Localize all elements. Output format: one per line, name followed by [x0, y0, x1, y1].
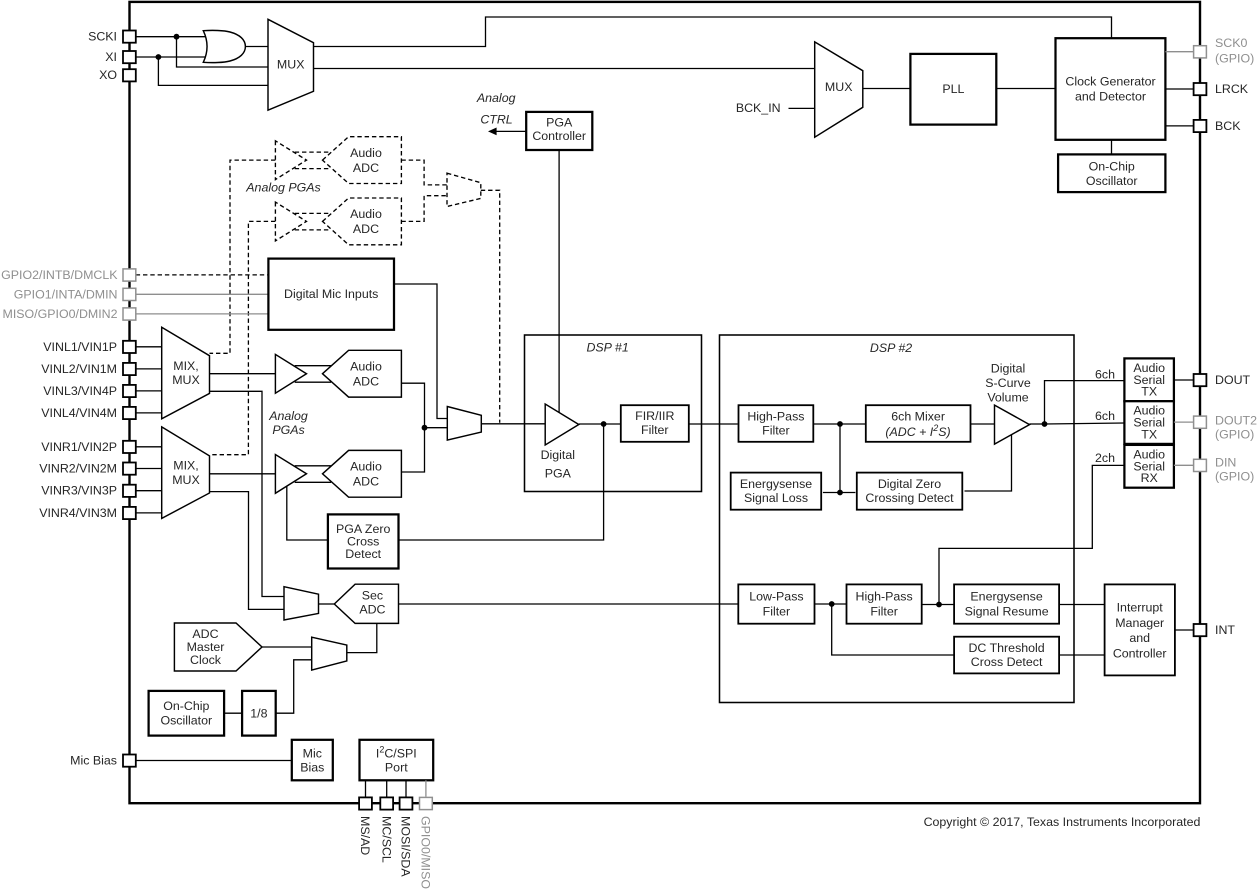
svg-text:CTRL: CTRL: [480, 112, 512, 126]
svg-text:VINL2/VIN1M: VINL2/VIN1M: [41, 362, 117, 376]
svg-text:6ch: 6ch: [1095, 409, 1115, 423]
svg-text:ADC: ADC: [192, 627, 218, 641]
svg-text:ADC: ADC: [353, 161, 379, 175]
svg-text:Signal Resume: Signal Resume: [965, 605, 1049, 619]
svg-text:Clock Generator: Clock Generator: [1065, 75, 1155, 89]
svg-text:Digital Zero: Digital Zero: [878, 477, 941, 491]
svg-text:VINL3/VIN4P: VINL3/VIN4P: [43, 384, 117, 398]
svg-text:Analog PGAs: Analog PGAs: [245, 181, 320, 195]
svg-text:Oscillator: Oscillator: [160, 714, 212, 728]
svg-text:Cross Detect: Cross Detect: [971, 655, 1043, 669]
svg-text:6ch: 6ch: [1095, 367, 1115, 381]
svg-text:Energysense: Energysense: [970, 590, 1042, 604]
svg-text:GPIO2/INTB/DMCLK: GPIO2/INTB/DMCLK: [1, 268, 118, 282]
svg-text:(GPIO): (GPIO): [1215, 51, 1254, 65]
svg-text:Oscillator: Oscillator: [1086, 174, 1138, 188]
svg-text:DC Threshold: DC Threshold: [968, 641, 1044, 655]
svg-text:MIX,: MIX,: [173, 459, 198, 473]
svg-text:SCK0: SCK0: [1215, 36, 1247, 50]
svg-text:VINL4/VIN4M: VINL4/VIN4M: [41, 406, 117, 420]
svg-text:GPIO0/MISO: GPIO0/MISO: [419, 816, 433, 889]
svg-text:VINR4/VIN3M: VINR4/VIN3M: [39, 506, 117, 520]
svg-text:TX: TX: [1141, 385, 1157, 399]
svg-text:MOSI/SDA: MOSI/SDA: [399, 816, 413, 877]
svg-text:Clock: Clock: [190, 653, 222, 667]
svg-text:Filter: Filter: [762, 423, 790, 437]
svg-text:Crossing Detect: Crossing Detect: [865, 491, 954, 505]
svg-text:XO: XO: [99, 68, 117, 82]
svg-text:Low-Pass: Low-Pass: [749, 590, 803, 604]
svg-text:DIN: DIN: [1215, 456, 1236, 470]
svg-text:BCK: BCK: [1215, 119, 1241, 133]
svg-text:(GPIO): (GPIO): [1215, 427, 1254, 441]
svg-text:Audio: Audio: [350, 207, 382, 221]
svg-text:MC/SCL: MC/SCL: [379, 816, 393, 863]
svg-text:GPIO1/INTA/DMIN: GPIO1/INTA/DMIN: [14, 287, 118, 301]
svg-text:Sec: Sec: [362, 589, 383, 603]
svg-text:Copyright © 2017, Texas Instru: Copyright © 2017, Texas Instruments Inco…: [924, 815, 1201, 829]
svg-text:MUX: MUX: [172, 373, 200, 387]
svg-text:ADC: ADC: [353, 222, 379, 236]
svg-text:SCKI: SCKI: [88, 30, 117, 44]
svg-text:DOUT2: DOUT2: [1215, 414, 1257, 428]
svg-text:Filter: Filter: [763, 605, 791, 619]
svg-text:Master: Master: [187, 640, 225, 654]
svg-text:ADC: ADC: [359, 603, 385, 617]
svg-text:S-Curve: S-Curve: [985, 376, 1031, 390]
svg-text:Analog: Analog: [476, 91, 516, 105]
svg-text:ADC: ADC: [353, 475, 379, 489]
svg-text:On-Chip: On-Chip: [1089, 160, 1135, 174]
svg-text:VINR3/VIN3P: VINR3/VIN3P: [41, 484, 117, 498]
svg-text:VINL1/VIN1P: VINL1/VIN1P: [43, 340, 117, 354]
svg-text:DOUT: DOUT: [1215, 373, 1251, 387]
svg-text:(GPIO): (GPIO): [1215, 470, 1254, 484]
svg-text:1/8: 1/8: [250, 707, 267, 721]
svg-text:Controller: Controller: [532, 129, 586, 143]
svg-text:and: and: [1129, 631, 1150, 645]
svg-text:PGA: PGA: [546, 115, 573, 129]
svg-text:Analog: Analog: [268, 409, 308, 423]
svg-text:2ch: 2ch: [1095, 451, 1115, 465]
svg-text:MS/AD: MS/AD: [358, 816, 372, 855]
svg-text:PGAs: PGAs: [272, 423, 304, 437]
svg-text:Port: Port: [385, 761, 408, 775]
svg-text:DSP #1: DSP #1: [586, 341, 628, 355]
svg-text:Digital Mic Inputs: Digital Mic Inputs: [284, 287, 378, 301]
svg-text:VINR1/VIN2P: VINR1/VIN2P: [41, 440, 117, 454]
svg-text:(ADC + I2S): (ADC + I2S): [885, 423, 950, 439]
svg-text:XI: XI: [105, 50, 117, 64]
svg-text:6ch Mixer: 6ch Mixer: [891, 409, 945, 423]
svg-text:Detect: Detect: [345, 547, 381, 561]
svg-text:MISO/GPIO0/DMIN2: MISO/GPIO0/DMIN2: [3, 307, 118, 321]
svg-text:Mic: Mic: [303, 747, 322, 761]
svg-text:Filter: Filter: [641, 423, 669, 437]
svg-text:Filter: Filter: [870, 605, 898, 619]
svg-text:Digital: Digital: [991, 362, 1025, 376]
svg-text:High-Pass: High-Pass: [747, 409, 804, 423]
svg-text:MUX: MUX: [825, 80, 853, 94]
svg-text:VINR2/VIN2M: VINR2/VIN2M: [39, 462, 117, 476]
svg-text:ADC: ADC: [353, 375, 379, 389]
svg-text:Audio: Audio: [350, 146, 382, 160]
svg-text:Bias: Bias: [300, 761, 324, 775]
svg-text:MIX,: MIX,: [173, 359, 198, 373]
svg-text:Audio: Audio: [350, 460, 382, 474]
svg-text:Signal Loss: Signal Loss: [744, 491, 808, 505]
svg-text:TX: TX: [1141, 427, 1157, 441]
svg-text:Audio: Audio: [350, 360, 382, 374]
svg-text:On-Chip: On-Chip: [163, 699, 209, 713]
svg-text:PGA: PGA: [545, 466, 572, 480]
svg-text:PLL: PLL: [942, 82, 964, 96]
svg-text:and Detector: and Detector: [1075, 90, 1146, 104]
svg-text:Manager: Manager: [1115, 616, 1164, 630]
svg-text:LRCK: LRCK: [1215, 82, 1249, 96]
svg-text:Digital: Digital: [541, 448, 575, 462]
svg-text:High-Pass: High-Pass: [856, 590, 913, 604]
svg-text:Energysense: Energysense: [740, 477, 812, 491]
svg-text:Controller: Controller: [1113, 646, 1167, 660]
svg-text:Interrupt: Interrupt: [1117, 601, 1164, 615]
svg-text:MUX: MUX: [172, 473, 200, 487]
svg-text:Mic Bias: Mic Bias: [70, 754, 117, 768]
svg-text:BCK_IN: BCK_IN: [736, 101, 781, 115]
svg-text:Volume: Volume: [987, 391, 1028, 405]
svg-text:FIR/IIR: FIR/IIR: [635, 409, 674, 423]
svg-text:MUX: MUX: [277, 58, 305, 72]
svg-text:DSP #2: DSP #2: [870, 341, 912, 355]
svg-text:RX: RX: [1141, 471, 1158, 485]
svg-text:INT: INT: [1215, 623, 1235, 637]
